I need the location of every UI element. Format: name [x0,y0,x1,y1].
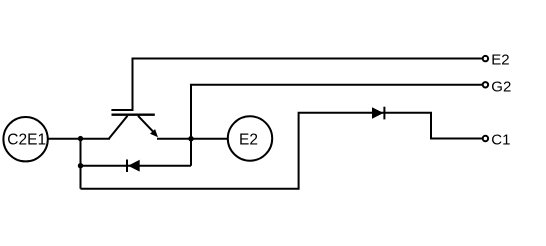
svg-text:E2: E2 [239,132,258,149]
svg-text:E2: E2 [491,51,509,68]
svg-text:G2: G2 [491,78,511,95]
svg-text:C1: C1 [491,131,510,148]
svg-text:C2E1: C2E1 [7,132,46,149]
